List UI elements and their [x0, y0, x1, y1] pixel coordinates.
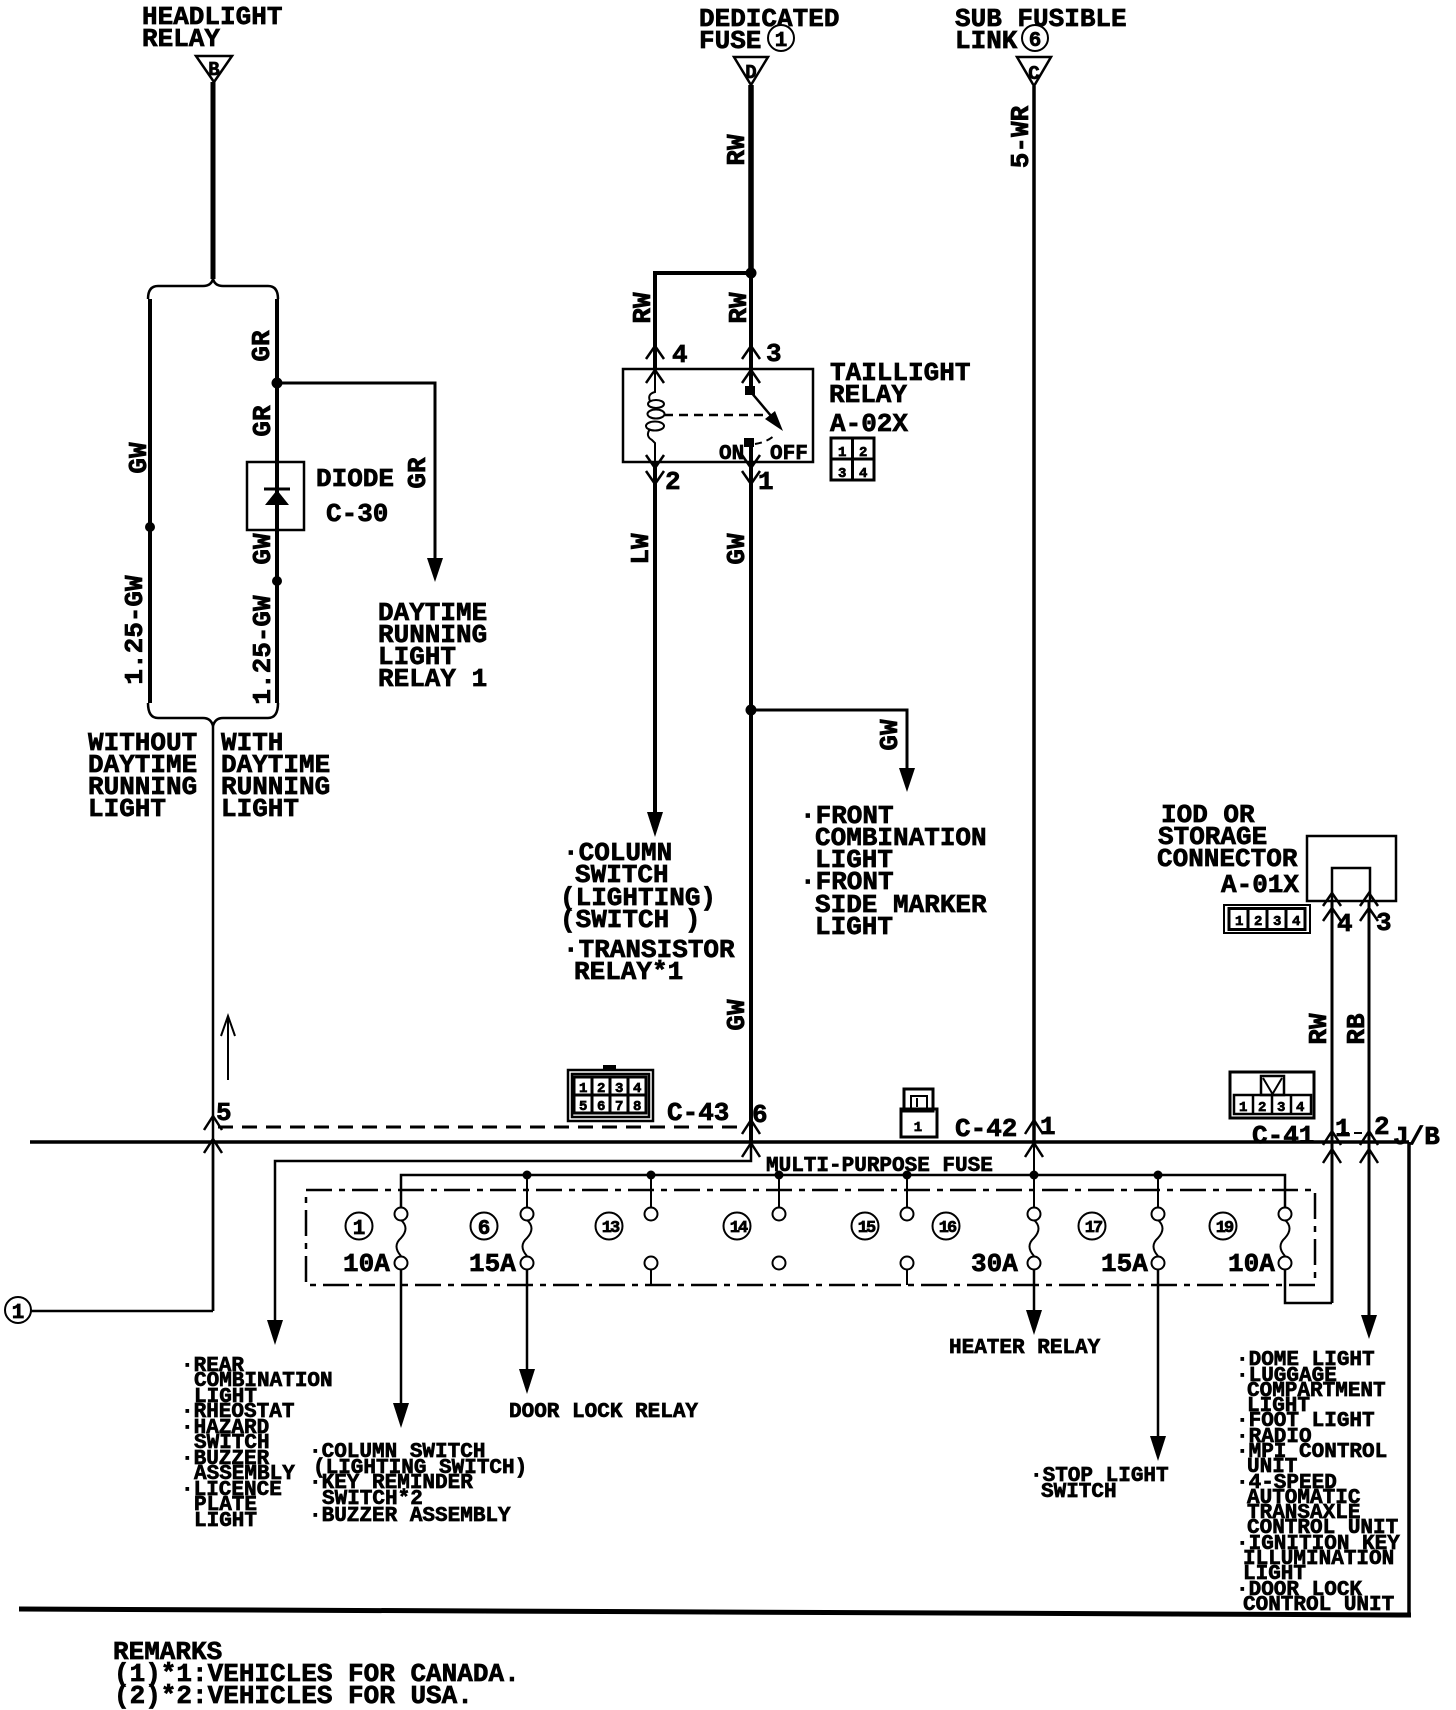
- svg-text:LIGHT: LIGHT: [88, 794, 166, 824]
- node junction above relay: [746, 268, 757, 279]
- svg-text:30A: 30A: [971, 1249, 1018, 1279]
- node junction to DRL relay branch: [272, 378, 283, 389]
- svg-text:4: 4: [1296, 1100, 1304, 1116]
- label WITHOUT DAYTIME RUNNING LIGHT: [88, 728, 197, 824]
- svg-text:13: 13: [602, 1219, 620, 1238]
- arrow to heater relay: [1026, 1310, 1042, 1335]
- label LW: [626, 533, 656, 565]
- wire pin 1 down: [749, 462, 753, 710]
- label COLUMN SWITCH (LIGHTING SWITCH) TRANSISTOR RELAY: [560, 838, 735, 987]
- label DOOR LOCK RELAY: [509, 1401, 698, 1424]
- svg-text:10A: 10A: [343, 1249, 390, 1279]
- svg-text:1: 1: [579, 1081, 587, 1097]
- connector triangle B: [196, 56, 232, 82]
- fuse 6 15A: [469, 1208, 534, 1280]
- svg-text:LIGHT: LIGHT: [221, 794, 299, 824]
- svg-text:1: 1: [353, 1218, 366, 1241]
- fuse 1 10A: [343, 1208, 408, 1280]
- svg-text:C-42: C-42: [955, 1114, 1017, 1144]
- svg-text:3: 3: [766, 339, 782, 369]
- fuse box dash-dot outline: [306, 1190, 1315, 1285]
- remark line 2: [114, 1681, 473, 1710]
- wire from D down to junction: [748, 85, 754, 273]
- svg-text:2: 2: [1254, 914, 1262, 930]
- label RW at pin 4: [628, 292, 658, 324]
- C-41 pin 2 bus chevrons: [1360, 1131, 1378, 1163]
- svg-text:2: 2: [1374, 1112, 1390, 1142]
- label C-41: [1252, 1121, 1314, 1151]
- label REMARKS: [113, 1637, 222, 1667]
- pin 2 connector chevrons: [646, 455, 664, 484]
- svg-text:RW: RW: [1304, 1013, 1334, 1045]
- wire from circle 1 to pin5 wire: [31, 1310, 213, 1313]
- svg-text:2: 2: [597, 1081, 605, 1097]
- label SUB FUSIBLE LINK (6): [955, 4, 1127, 56]
- label STOP LIGHT SWITCH: [1030, 1465, 1169, 1504]
- label GW below diode: [248, 533, 278, 565]
- svg-text:2: 2: [859, 445, 867, 461]
- svg-text:1: 1: [12, 1302, 25, 1325]
- svg-text:HEATER RELAY: HEATER RELAY: [949, 1337, 1101, 1360]
- wire pin 3 internal: [749, 370, 753, 388]
- pin 5 bus chevrons: [204, 1116, 222, 1153]
- relay actuation dashed link: [664, 414, 766, 417]
- svg-text:DOOR LOCK RELAY: DOOR LOCK RELAY: [509, 1401, 698, 1424]
- wire left branch (without DRL): [148, 299, 152, 703]
- fuse 13: [596, 1208, 658, 1286]
- wire branch to relay pin 4: [655, 273, 751, 368]
- svg-text:C: C: [1028, 63, 1039, 85]
- wire RB from IOD pin 3: [1368, 901, 1371, 1317]
- A-01X pin strip icon: [1224, 905, 1310, 933]
- feeder junction dots: [523, 1171, 1163, 1180]
- fuse 14: [724, 1208, 786, 1270]
- svg-text:8: 8: [633, 1099, 641, 1115]
- svg-text:1: 1: [775, 30, 788, 53]
- relay switch arm to OFF: [750, 391, 783, 431]
- svg-text:1.25-GW: 1.25-GW: [120, 575, 150, 685]
- svg-text:SWITCH: SWITCH: [1041, 1481, 1117, 1504]
- arrow to column switch: [647, 812, 663, 837]
- pin 6 bus chevrons: [742, 1120, 760, 1157]
- svg-text:1: 1: [1235, 914, 1243, 930]
- connector triangle C: [1017, 57, 1051, 86]
- fuse 19 10A: [1210, 1208, 1292, 1280]
- svg-text:19: 19: [1216, 1219, 1234, 1238]
- label 1.25-GW on right branch: [248, 595, 278, 705]
- label DAYTIME RUNNING LIGHT RELAY 1: [378, 598, 487, 694]
- svg-text:6: 6: [597, 1099, 605, 1115]
- svg-text:LW: LW: [626, 533, 656, 565]
- svg-text:4: 4: [672, 340, 688, 370]
- label ON: [719, 443, 744, 466]
- svg-text:GR: GR: [403, 457, 433, 489]
- pin 3 connector chevrons: [742, 346, 760, 383]
- label MULTI-PURPOSE FUSE: [766, 1155, 993, 1178]
- pin 2 label: [665, 467, 681, 497]
- svg-text:16: 16: [939, 1219, 957, 1238]
- pin 4 connector chevrons: [646, 346, 664, 383]
- svg-text:DIODE: DIODE: [316, 464, 394, 494]
- fuse 16 30A: [933, 1208, 1041, 1280]
- node junction to front lights: [746, 705, 757, 716]
- wire fuse 16 down to heater relay: [1033, 1269, 1036, 1312]
- svg-text:GR: GR: [248, 405, 278, 437]
- svg-text:RELAY*1: RELAY*1: [574, 957, 683, 987]
- fuse 15: [852, 1208, 914, 1286]
- svg-text:3: 3: [615, 1081, 623, 1097]
- label C-42: [955, 1114, 1017, 1144]
- splice dot below diode: [272, 576, 282, 586]
- label REAR COMBINATION LIGHT RHEOSTAT HAZARD SWITCH BUZZER ASSEMBLY LICENCE PLATE LIGHT: [181, 1355, 333, 1533]
- C-42 pin 1 label: [1040, 1112, 1056, 1142]
- pin 3 label: [1376, 908, 1392, 938]
- pin 1 label: [758, 467, 774, 497]
- label FRONT COMBINATION LIGHT / FRONT SIDE MARKER LIGHT: [800, 801, 987, 942]
- dashed branch line at J/B top: [218, 1126, 746, 1129]
- svg-text:RELAY 1: RELAY 1: [378, 664, 487, 694]
- svg-text:5: 5: [579, 1099, 587, 1115]
- svg-text:(2)*2:VEHICLES FOR USA.: (2)*2:VEHICLES FOR USA.: [114, 1681, 473, 1710]
- fuse 17 15A: [1079, 1208, 1165, 1280]
- diode symbol: [264, 489, 290, 505]
- label DIODE C-30: [316, 464, 394, 529]
- wire to daytime running light relay: [277, 383, 435, 560]
- svg-text:4: 4: [633, 1081, 641, 1097]
- wire fuse19 to RW line: [1285, 1269, 1332, 1303]
- svg-text:4: 4: [859, 466, 867, 482]
- label C-43: [667, 1098, 729, 1128]
- connector triangle D: [734, 57, 768, 85]
- svg-text:D: D: [745, 62, 756, 84]
- svg-text:GW: GW: [124, 442, 154, 474]
- svg-text:2: 2: [665, 467, 681, 497]
- C-42 pin 1 bus chevrons: [1025, 1120, 1043, 1157]
- wire from brace to J/B pin 5: [212, 726, 215, 1311]
- label GW above C-43: [722, 999, 752, 1031]
- wire RW from IOD pin 4: [1331, 901, 1334, 1303]
- svg-text:17: 17: [1085, 1219, 1103, 1238]
- svg-text:1.25-GW: 1.25-GW: [248, 595, 278, 705]
- label GW below pin 1: [722, 533, 752, 565]
- svg-text:15A: 15A: [1101, 1249, 1148, 1279]
- svg-text:B: B: [208, 59, 219, 81]
- svg-text:(SWITCH ): (SWITCH ): [560, 905, 700, 935]
- svg-text:14: 14: [730, 1219, 748, 1238]
- arrow to stop light switch: [1150, 1436, 1166, 1461]
- svg-text:GR: GR: [247, 330, 277, 362]
- svg-text:LIGHT: LIGHT: [194, 1510, 257, 1533]
- label HEATER RELAY: [949, 1337, 1101, 1360]
- wire fuse 17 down to stop light switch: [1157, 1269, 1160, 1438]
- wire from C down to C-42: [1032, 86, 1036, 1142]
- label GW on branch: [875, 719, 905, 751]
- svg-text:GW: GW: [722, 533, 752, 565]
- label GR on DRL branch: [403, 457, 433, 489]
- svg-text:1: 1: [758, 467, 774, 497]
- wire fuse 1 down to column switch loads: [400, 1269, 403, 1405]
- svg-text:4: 4: [1337, 909, 1353, 939]
- pin 1 connector chevrons: [742, 455, 760, 484]
- sheet reference circle 1: [5, 1297, 31, 1325]
- J/B right border: [1407, 1142, 1411, 1614]
- relay coil: [646, 370, 665, 462]
- label 1.25-GW on left branch: [120, 575, 150, 685]
- label GW on left branch: [124, 442, 154, 474]
- svg-text:2: 2: [1258, 1100, 1266, 1116]
- IOD connector box: [1307, 836, 1396, 901]
- svg-text:6: 6: [478, 1218, 491, 1241]
- pin 4 label: [672, 340, 688, 370]
- svg-text:RB: RB: [1342, 1013, 1372, 1045]
- svg-text:6: 6: [1029, 30, 1042, 53]
- svg-text:4: 4: [1292, 914, 1300, 930]
- label J/B: [1393, 1122, 1440, 1152]
- svg-text:LINK: LINK: [955, 26, 1018, 56]
- wire pin5 down to sheet ref: [212, 1142, 215, 1311]
- relay switch lower contact: [744, 434, 776, 447]
- svg-text:RELAY: RELAY: [142, 24, 220, 54]
- svg-text:C-43: C-43: [667, 1098, 729, 1128]
- IOD pin 4 chevrons: [1323, 893, 1341, 921]
- arrow RB to dome light loads: [1361, 1315, 1377, 1339]
- svg-text:15: 15: [858, 1219, 876, 1238]
- svg-text:3: 3: [838, 466, 846, 482]
- arrow to daytime running light relay 1: [427, 558, 443, 582]
- C-42 connector icon: [901, 1089, 937, 1137]
- feeder wire to rear combination light: [275, 1142, 751, 1322]
- label GR below junction: [248, 405, 278, 437]
- wire GW down to J/B pin 6: [749, 710, 753, 1142]
- svg-text:15A: 15A: [469, 1249, 516, 1279]
- label HEADLIGHT RELAY: [142, 2, 282, 54]
- arrow to door lock relay: [519, 1369, 535, 1394]
- wire pin 1 internal: [749, 446, 753, 462]
- label DEDICATED FUSE (1): [699, 4, 839, 56]
- wire fuse 6 down to door lock relay: [526, 1269, 529, 1371]
- svg-text:C-30: C-30: [326, 499, 388, 529]
- label WITH DAYTIME RUNNING LIGHT: [221, 728, 330, 824]
- svg-text:RW: RW: [724, 292, 754, 324]
- flow arrow up: [221, 1016, 235, 1080]
- C-41 pin 2 label: [1374, 1112, 1390, 1142]
- remark line 1: [114, 1659, 520, 1689]
- svg-text:5-WR: 5-WR: [1006, 105, 1036, 168]
- wire to relay pin 3: [749, 273, 753, 368]
- label 5-WR: [1006, 105, 1036, 168]
- svg-text:A-01X: A-01X: [1221, 870, 1299, 900]
- relay switch common contact: [745, 386, 755, 395]
- C-41 pin 1 bus chevrons: [1323, 1131, 1341, 1163]
- wire branch to front combination light: [751, 710, 907, 770]
- label DOME LIGHT LUGGAGE COMPARTMENT LIGHT FOOT LIGHT RADIO MPI CONTROL UNIT 4-SPEED AUTOMATIC TRANSAXLE CONTROL UNIT IGNITION KEY ILLUMINATION LIGHT DOOR LOCK CONTROL UNIT: [1236, 1349, 1400, 1617]
- svg-text:RW: RW: [722, 134, 752, 166]
- svg-text:1: 1: [1239, 1100, 1247, 1116]
- brace merge (bottom): [148, 703, 278, 726]
- label IOD OR STORAGE CONNECTOR A-01X: [1157, 800, 1299, 900]
- svg-text:FUSE: FUSE: [699, 26, 761, 56]
- taillight relay A-02X box: [623, 369, 813, 462]
- label RB: [1342, 1013, 1372, 1045]
- pin 5 label: [216, 1098, 232, 1128]
- svg-text:GW: GW: [875, 719, 905, 751]
- svg-text:GW: GW: [722, 999, 752, 1031]
- fuse top stubs: [527, 1142, 1158, 1208]
- svg-text:GW: GW: [248, 533, 278, 565]
- svg-text:7: 7: [615, 1099, 623, 1115]
- diode C-30 box: [247, 462, 304, 530]
- svg-text:3: 3: [1376, 908, 1392, 938]
- svg-text:J/B: J/B: [1393, 1122, 1440, 1152]
- label COLUMN SWITCH (LIGHTING SWITCH) KEY REMINDER SWITCH BUZZER ASSEMBLY: [309, 1441, 527, 1528]
- svg-text:3: 3: [1277, 1100, 1285, 1116]
- svg-text:1: 1: [1040, 1112, 1056, 1142]
- label RW: [1304, 1013, 1334, 1045]
- label RW at pin 3: [724, 292, 754, 324]
- IOD pin 3 chevrons: [1360, 893, 1378, 921]
- svg-text:ON: ON: [719, 443, 744, 466]
- wire from B down: [211, 82, 216, 279]
- pin 3 label: [766, 339, 782, 369]
- svg-text:A-02X: A-02X: [830, 409, 908, 439]
- label OFF: [770, 443, 808, 466]
- fuse feeder bus: [401, 1175, 1285, 1208]
- svg-text:OFF: OFF: [770, 443, 808, 466]
- svg-text:10A: 10A: [1228, 1249, 1275, 1279]
- arrow to column switch / key reminder: [393, 1403, 409, 1428]
- svg-text:1: 1: [838, 445, 846, 461]
- pin 4 label: [1337, 909, 1353, 939]
- bottom border line: [19, 1609, 1411, 1615]
- arrow to rear combination light: [267, 1320, 283, 1345]
- wire right branch (with DRL): [275, 299, 279, 703]
- arrow to front combination light: [899, 768, 915, 792]
- svg-text:RELAY: RELAY: [829, 380, 907, 410]
- svg-text:LIGHT: LIGHT: [815, 912, 893, 942]
- C-43 connector icon 8 pin: [568, 1065, 653, 1121]
- A-02X pin grid icon: [831, 438, 874, 482]
- C-41 connector icon M: [1230, 1072, 1314, 1118]
- svg-text:·BUZZER ASSEMBLY: ·BUZZER ASSEMBLY: [309, 1505, 511, 1528]
- svg-text:RW: RW: [628, 292, 658, 324]
- wire pin 2 down to column switch: [653, 462, 657, 814]
- svg-text:C-41: C-41: [1252, 1121, 1314, 1151]
- splice dot on left branch: [145, 522, 155, 532]
- C-41 pin 1 label: [1335, 1114, 1351, 1144]
- svg-text:1: 1: [914, 1120, 922, 1136]
- label TAILLIGHT RELAY A-02X: [829, 358, 970, 439]
- dash between C-41 pins: [1341, 1132, 1362, 1134]
- J/B bus line: [30, 1140, 1409, 1144]
- label GR above junction: [247, 330, 277, 362]
- pin 6 label: [752, 1100, 768, 1130]
- svg-text:3: 3: [1273, 914, 1281, 930]
- label RW on feed wire: [722, 134, 752, 166]
- brace split (top): [148, 279, 278, 299]
